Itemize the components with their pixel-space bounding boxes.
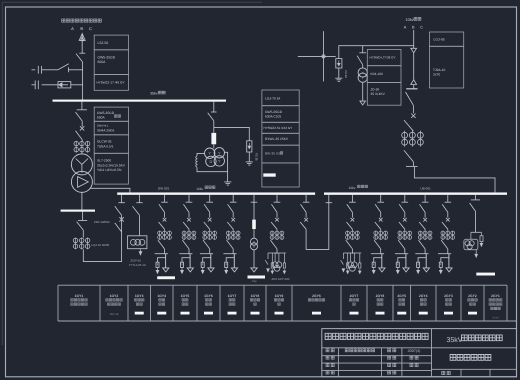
arrester <box>156 262 159 267</box>
wire right leg <box>210 254 212 268</box>
svg-text:K04-100: K04-100 <box>371 72 384 76</box>
wire <box>164 229 166 230</box>
wire: bay stub from bus <box>276 195 278 203</box>
wire <box>209 249 211 254</box>
svg-text:C: C <box>420 26 423 30</box>
CT group <box>442 231 444 240</box>
disconnector blade <box>204 204 210 212</box>
svg-text:ZN4 10/T 600: ZN4 10/T 600 <box>272 277 290 281</box>
breaker X <box>304 218 308 222</box>
wire <box>188 249 190 254</box>
name plate bar 1GY4 <box>157 276 175 279</box>
CT group <box>375 231 377 240</box>
svg-text:UB-001: UB-001 <box>420 187 431 191</box>
wire: bay stub from bus <box>164 195 166 203</box>
svg-text:1GY-19: 1GY-19 <box>110 313 119 316</box>
bright name plate in box <box>263 173 275 176</box>
svg-text:GLCW-35: GLCW-35 <box>97 140 112 144</box>
info grid <box>322 355 432 357</box>
wire: bay stub from bus <box>188 195 190 203</box>
CT group <box>183 231 185 240</box>
voltage transformer 4-circle cluster <box>205 148 215 158</box>
blade <box>470 203 476 211</box>
stub <box>328 195 330 203</box>
svg-text:GW5-35GD: GW5-35GD <box>265 110 283 114</box>
wire <box>447 249 449 254</box>
CT group <box>204 231 206 240</box>
CT group (6 circles) <box>75 141 77 153</box>
disconnector blade 2 <box>159 222 165 229</box>
disconnector blade <box>442 204 448 212</box>
wire <box>253 250 255 268</box>
disconnector blade 3 <box>270 240 277 249</box>
right section divider <box>432 368 517 370</box>
svg-text:35 /0.4KV: 35 /0.4KV <box>371 92 386 96</box>
wire + discharge arrow <box>417 267 419 270</box>
blade 2 <box>300 222 306 229</box>
wire <box>404 249 406 254</box>
wire right leg <box>425 254 427 268</box>
svg-text:FZ-10: FZ-10 <box>344 71 348 79</box>
svg-text:75/5A 0.5/1: 75/5A 0.5/1 <box>97 144 114 148</box>
wire <box>81 121 83 127</box>
svg-text:2GY1: 2GY1 <box>491 294 500 298</box>
wire branch to arrester <box>203 258 211 263</box>
branch wire at y69.8 <box>45 69 59 71</box>
cable outgoing arrow <box>187 268 193 272</box>
wire branch to arrester <box>374 258 382 263</box>
wire link y=45.7 <box>339 46 414 59</box>
wire right leg <box>381 254 383 268</box>
cable outgoing arrow <box>403 268 409 272</box>
disconnector blade 3 <box>182 240 189 249</box>
arrester <box>439 262 442 267</box>
table divider x=461 <box>460 285 462 321</box>
wire: bay stub from bus <box>232 195 234 203</box>
disconnector blade 2 <box>442 222 448 229</box>
disconnector blade 2 <box>375 222 381 229</box>
disconnector tick <box>186 201 193 203</box>
svg-text:FYS-0.25 1A: FYS-0.25 1A <box>129 263 146 267</box>
incoming line arrow (wavy arrow symbol) <box>81 35 83 43</box>
CT group <box>75 238 77 250</box>
disconnector blade 2 <box>271 222 277 229</box>
main transformer T1: HV winding circle with Y <box>71 154 92 175</box>
wire + discharge arrow <box>397 267 399 270</box>
PT box (rounded) <box>470 232 472 239</box>
junction tick <box>359 52 366 54</box>
disconnector blade <box>375 204 381 212</box>
breaker X <box>446 218 450 222</box>
outgoing arrow (hollow triangle) <box>360 101 366 105</box>
wire + discharge arrow <box>225 267 227 270</box>
wire <box>188 229 190 230</box>
wire fuse to PT <box>213 144 215 148</box>
wire <box>232 212 234 217</box>
table divider x=292 <box>291 285 293 321</box>
wire: bay stub from bus <box>447 195 449 203</box>
wire <box>404 212 406 217</box>
tee bar <box>155 253 168 255</box>
svg-text:SL7-2500: SL7-2500 <box>97 159 111 163</box>
disconnector blade <box>357 56 363 65</box>
CT group <box>404 131 406 147</box>
wire <box>276 212 278 217</box>
svg-text:BW-35 0.5: BW-35 0.5 <box>265 151 281 155</box>
wire <box>380 249 382 254</box>
wire <box>413 85 415 89</box>
table divider x=150.5 <box>150 285 152 321</box>
wire to ground <box>338 68 340 78</box>
wire <box>424 249 426 254</box>
FZ-35 arrester box <box>247 141 252 152</box>
disconnector tick <box>206 201 213 203</box>
disconnector blade <box>399 204 405 212</box>
svg-text:HY5WD-LTY38 GY: HY5WD-LTY38 GY <box>370 56 396 60</box>
disconnector blade 2 <box>399 222 405 229</box>
wire: incoming drop <box>81 40 83 53</box>
left switch hang <box>342 253 344 259</box>
riser stub to 10kV bus <box>121 195 123 203</box>
wire arrester to ground <box>248 152 250 162</box>
wire <box>413 53 415 80</box>
10kV busbar section I <box>117 192 315 194</box>
svg-text:600A: 600A <box>97 115 105 119</box>
disconnector blade 2 <box>227 222 233 229</box>
title: institute name <box>325 333 428 339</box>
cable arrow up <box>411 80 417 85</box>
ground symbol <box>246 161 253 163</box>
wire branch to arrester <box>182 258 190 263</box>
svg-text:ZN4 10/600: ZN4 10/600 <box>94 220 110 224</box>
disconnector tick <box>445 201 452 203</box>
disconnector blade 3 <box>404 150 413 161</box>
wire <box>253 202 255 219</box>
svg-text:D: D <box>210 160 213 164</box>
arrester <box>201 262 204 267</box>
disconnector tick <box>274 201 281 203</box>
lightning rod mast <box>323 31 325 81</box>
svg-text:SN4A 20KA: SN4A 20KA <box>97 128 115 132</box>
wire transformer to LV bar <box>81 192 83 209</box>
svg-text:2GY4: 2GY4 <box>419 294 428 298</box>
svg-text:GW5-35GD: GW5-35GD <box>98 55 116 59</box>
svg-text:2007(4): 2007(4) <box>408 349 421 353</box>
disconnector tick <box>377 201 384 203</box>
disconnector blade 3 <box>346 240 353 249</box>
PT circles <box>131 239 137 245</box>
svg-text:630A C105: 630A C105 <box>265 114 281 118</box>
wire: bay drop from 35kV bus <box>81 102 83 110</box>
spec box column (35kV PT bay) <box>262 90 299 106</box>
disconnector tick <box>349 201 356 203</box>
disconnector tick <box>161 201 168 203</box>
PT 3-circle cluster <box>350 253 352 262</box>
wire <box>232 249 234 254</box>
right arrester hang <box>359 253 361 263</box>
wire: bay stub from bus <box>351 195 353 203</box>
riser tick <box>118 202 125 204</box>
arrester hang <box>480 232 482 236</box>
wire <box>81 140 83 142</box>
disconnector blade 3 <box>398 240 405 249</box>
wire branch to arrester <box>441 258 449 263</box>
arrester hang <box>347 253 349 263</box>
svg-text:TJ9A-10: TJ9A-10 <box>433 68 446 72</box>
disconnector blade <box>228 204 234 212</box>
wire <box>424 229 426 230</box>
wire <box>164 249 166 254</box>
wire <box>380 212 382 217</box>
cabinet table frame <box>58 284 507 286</box>
ground symbol <box>224 181 231 183</box>
FZ-10 arrester box <box>336 59 342 68</box>
tee bar <box>415 253 428 255</box>
wire <box>139 215 141 236</box>
svg-text:LGJ-70 1#: LGJ-70 1# <box>265 97 280 101</box>
wire transformer LV to bus link <box>90 188 130 192</box>
tee bar <box>395 253 408 255</box>
wire <box>81 153 83 155</box>
arrester <box>225 262 228 267</box>
wire <box>351 229 353 230</box>
discharge arrow below <box>140 249 142 252</box>
table divider x=58 <box>57 285 59 321</box>
disconnector blade 2 <box>204 222 210 229</box>
svg-text:10kv: 10kv <box>196 187 203 191</box>
ground symbol <box>335 77 342 79</box>
wire <box>209 212 211 217</box>
wire to junction <box>213 121 215 133</box>
breaker X <box>423 218 427 222</box>
disconnector blade 3 <box>441 240 448 249</box>
feeder bay 1GY3 (bus PT) <box>139 195 141 203</box>
wire: bay stub from bus <box>424 195 426 203</box>
wire right leg <box>448 254 450 268</box>
PT 3-circle cluster <box>274 253 276 262</box>
svg-text:GW 901: GW 901 <box>158 186 170 190</box>
wire incoming <box>413 30 415 48</box>
wire right leg <box>165 254 167 268</box>
disconnector tick <box>230 201 237 203</box>
tee bar <box>438 253 451 255</box>
svg-text:2GY5: 2GY5 <box>397 294 406 298</box>
svg-text:1GY7: 1GY7 <box>228 294 237 298</box>
svg-text:FZ-35: FZ-35 <box>255 153 259 161</box>
cable outgoing arrow <box>231 268 237 272</box>
disconnector QS1 tick <box>79 52 85 54</box>
table divider x=197 <box>196 285 198 321</box>
wire <box>447 229 449 230</box>
PT loop wire <box>197 152 228 171</box>
disconnector blade 2 <box>404 120 413 131</box>
wire down <box>362 82 364 101</box>
svg-text:1GY9: 1GY9 <box>275 294 284 298</box>
PT bay tick <box>211 111 217 113</box>
fuse (bright capsule) <box>211 133 216 144</box>
breaker X <box>275 218 279 222</box>
table divider x=100 <box>99 285 101 321</box>
bus tie right tick <box>326 202 333 204</box>
wire branch to arrester <box>398 258 406 263</box>
wire + discharge arrow <box>202 267 204 270</box>
riser disconnector blade <box>115 206 122 215</box>
wire + discharge arrow <box>373 267 375 270</box>
wire <box>164 212 166 217</box>
table divider x=507 <box>506 285 508 321</box>
wire <box>253 229 255 238</box>
termination bar <box>406 88 417 90</box>
arrester <box>417 262 420 267</box>
CT group <box>347 231 349 240</box>
wire + discharge arrow <box>181 267 183 270</box>
wire stub <box>253 195 255 203</box>
breaker X <box>163 218 167 222</box>
svg-text:B: B <box>80 26 83 31</box>
svg-text:SW4 #4.1: SW4 #4.1 <box>97 124 109 127</box>
disconnector blade 3 <box>374 240 381 249</box>
arrester <box>396 262 399 267</box>
svg-text:1GY4: 1GY4 <box>157 294 166 298</box>
table divider x=410.5 <box>410 285 412 321</box>
PT 2-circle <box>251 238 258 245</box>
wire <box>475 211 477 232</box>
wire run to 10kV bus II <box>414 166 495 192</box>
35kV busbar <box>53 100 227 102</box>
wire <box>351 249 353 254</box>
disconnector blade <box>271 204 277 212</box>
breaker X <box>231 218 235 222</box>
fuse capsule <box>252 220 256 229</box>
cable outgoing arrow <box>208 268 214 272</box>
disconnector blade 3 <box>158 240 165 249</box>
table divider x=436 <box>435 285 437 321</box>
svg-text:A: A <box>71 26 74 31</box>
CT group <box>419 231 421 240</box>
svg-text:B: B <box>412 26 415 30</box>
wire branch to arrester <box>418 258 426 263</box>
svg-text:1/1p: 1/1p <box>252 280 258 283</box>
junction wire to FZ-35 arrester <box>214 127 250 140</box>
svg-text:35kv: 35kv <box>150 91 158 95</box>
cable outgoing arrow <box>423 268 429 272</box>
tee bar <box>179 253 192 255</box>
outer frame corner lines <box>2 1 262 3</box>
disconnector blade 3 <box>227 240 234 249</box>
disconnector blade <box>347 204 353 212</box>
table divider x=220 <box>219 285 221 321</box>
wire: bay stub from bus <box>209 195 211 203</box>
right arrester hang <box>283 253 285 263</box>
svg-text:A: A <box>404 26 407 30</box>
svg-text:RXWL-35 25KV: RXWL-35 25KV <box>265 137 289 141</box>
surge counter box with left arrow <box>58 82 71 88</box>
tee bar <box>343 252 361 254</box>
disconnector tick <box>422 201 429 203</box>
table divider x=341 <box>340 285 342 321</box>
wire + discharge arrow <box>157 267 159 270</box>
stem below <box>475 250 477 255</box>
table divider x=484 <box>483 285 485 321</box>
svg-text:10kv: 10kv <box>406 17 414 22</box>
earthing switch blade 1 <box>58 64 69 70</box>
disconnector tick <box>402 201 409 203</box>
tick <box>251 201 258 203</box>
blade <box>133 206 140 215</box>
10kV busbar section II <box>324 192 507 194</box>
disconnector blade <box>406 92 414 105</box>
disconnector blade 2 <box>419 222 425 229</box>
svg-text:1GY5: 1GY5 <box>181 294 190 298</box>
wire: bay stub from bus <box>380 195 382 203</box>
tee bar <box>406 165 418 167</box>
wire <box>447 212 449 217</box>
tee bar <box>371 253 384 255</box>
wire <box>412 105 414 113</box>
breaker X <box>351 218 355 222</box>
svg-text:KV10: KV10 <box>493 316 500 319</box>
spec box column (station transformer) <box>367 50 401 66</box>
svg-text:GW5-35GD: GW5-35GD <box>97 111 115 115</box>
wire right leg <box>405 254 407 268</box>
disconnector blade <box>76 112 83 121</box>
svg-text:1GY3: 1GY3 <box>135 294 144 298</box>
wire <box>276 229 278 230</box>
wire <box>424 212 426 217</box>
label: incoming 35kV line source <box>62 19 102 22</box>
breaker X <box>208 218 212 222</box>
tee bar <box>268 252 286 254</box>
PT bay disconnector blade <box>208 113 214 121</box>
CT group <box>271 231 273 240</box>
CT group <box>227 231 229 240</box>
arrester <box>181 262 184 267</box>
table divider x=393 <box>392 285 394 321</box>
CT group <box>159 231 161 240</box>
svg-text:LSJ-50: LSJ-50 <box>98 41 109 45</box>
disconnector blade <box>159 204 165 212</box>
svg-text:1GY1: 1GY1 <box>75 294 84 298</box>
svg-text:C: C <box>89 26 92 31</box>
svg-text:2GY6: 2GY6 <box>312 294 321 298</box>
breaker X <box>411 114 415 118</box>
disconnector blade <box>183 204 189 212</box>
capacitor / coupling gap 1 <box>32 69 36 71</box>
wire <box>209 229 211 230</box>
spec box column (10kV incoming) <box>430 32 464 46</box>
svg-text:2GY7: 2GY7 <box>350 294 359 298</box>
breaker X <box>379 218 383 222</box>
feeder bay 2GY2 (bus PT) <box>475 195 477 200</box>
ground drop <box>227 172 229 182</box>
wire branch to arrester <box>226 258 234 263</box>
svg-text:35±2x2.5%/10.5KV: 35±2x2.5%/10.5KV <box>97 163 126 167</box>
info grid labels <box>326 349 334 352</box>
wire <box>82 230 84 238</box>
wire <box>404 229 406 230</box>
left switch hang <box>267 253 269 259</box>
svg-text:2GY3: 2GY3 <box>444 294 453 298</box>
cable outgoing arrow <box>163 268 169 272</box>
table divider x=367 <box>366 285 368 321</box>
table divider x=128 <box>127 285 129 321</box>
svg-text:3x70: 3x70 <box>433 73 440 77</box>
CT group <box>399 231 401 240</box>
cable outgoing arrow <box>379 268 385 272</box>
disconnector blade 3 <box>203 240 210 249</box>
spec box column (main transformer bay) <box>94 107 128 121</box>
disconnector blade 3 <box>419 240 426 249</box>
